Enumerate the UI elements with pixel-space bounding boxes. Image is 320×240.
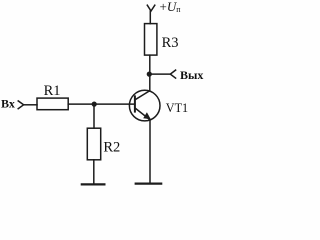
- resistor R2: [87, 128, 100, 160]
- resistor R3: [145, 24, 157, 55]
- ground bar left: [82, 183, 105, 185]
- wire R2 bottom to ground: [93, 160, 95, 185]
- svg-text:VT1: VT1: [166, 101, 188, 115]
- transistor VT1 collector diagonal: [135, 91, 150, 100]
- wire input terminal to R1: [24, 104, 37, 106]
- svg-text:R3: R3: [162, 35, 179, 51]
- wire emitter to ground: [149, 120, 151, 184]
- svg-text:+Uп: +Uп: [160, 0, 182, 14]
- wire from +Up terminal to R3 top: [149, 11, 151, 24]
- terminal +Up (fork opening up): [147, 5, 155, 11]
- resistor R1: [37, 98, 68, 110]
- svg-text:Вх: Вх: [1, 97, 15, 111]
- node base junction: [92, 102, 97, 107]
- wire R3 bottom to transistor collector: [149, 55, 151, 91]
- transistor VT1 emitter arrowhead: [143, 112, 151, 119]
- wire R1 to base with junction: [68, 103, 135, 105]
- ground bar right: [136, 183, 162, 185]
- svg-text:R2: R2: [103, 140, 120, 156]
- wire junction to output terminal: [149, 73, 170, 75]
- terminal Vh (fork opening left): [18, 101, 23, 109]
- transistor VT1 circle: [129, 90, 160, 121]
- transistor VT1 base bar: [134, 96, 136, 111]
- svg-text:R1: R1: [44, 83, 61, 99]
- transistor VT1 emitter diagonal with arrow: [135, 108, 150, 119]
- terminal Vyh (fork opening right): [170, 70, 175, 78]
- svg-text:Вых: Вых: [180, 68, 203, 82]
- wire junction down to R2: [93, 104, 95, 128]
- node output junction: [147, 72, 152, 77]
